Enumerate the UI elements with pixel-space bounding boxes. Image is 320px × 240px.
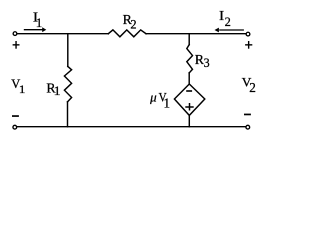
resistor R1 <box>64 66 71 102</box>
plus sign port 1 <box>13 41 20 49</box>
wire top-right segment <box>146 33 246 35</box>
terminal port 2 bottom <box>246 125 250 129</box>
minus sign port 1 <box>12 115 19 117</box>
terminal port 2 top <box>246 32 250 36</box>
dependent source U1 diamond <box>174 84 204 115</box>
wire R1 bottom stub <box>67 102 69 127</box>
current arrow I2 <box>215 28 244 33</box>
svg-text:2: 2 <box>225 14 231 29</box>
label I1 <box>33 9 42 30</box>
plus sign port 2 <box>245 41 252 49</box>
wire R3 top stub <box>188 34 190 45</box>
wire top-left segment <box>18 33 109 35</box>
resistor R3 <box>187 45 193 73</box>
label R3 <box>195 52 210 70</box>
terminal port 1 top <box>13 32 17 36</box>
minus sign port 2 <box>244 113 251 115</box>
svg-text:1: 1 <box>54 84 61 98</box>
wire stub into source apex <box>188 73 190 84</box>
label I2 <box>219 8 231 29</box>
svg-text:μ: μ <box>149 90 157 105</box>
plus sign inside source <box>185 103 193 111</box>
wire source bottom stub <box>188 115 190 126</box>
svg-text:3: 3 <box>204 56 210 70</box>
wire bottom segment <box>18 126 247 128</box>
svg-text:2: 2 <box>130 17 136 31</box>
wire R1 top stub <box>67 34 69 67</box>
svg-text:1: 1 <box>19 84 26 96</box>
svg-text:2: 2 <box>249 80 256 95</box>
label V1 <box>11 77 25 96</box>
minus sign inside source <box>186 90 192 92</box>
resistor R2 <box>108 30 146 37</box>
current arrow I1 <box>24 27 47 32</box>
label V2 <box>242 76 256 95</box>
svg-text:1: 1 <box>36 15 43 30</box>
label R2 <box>123 12 137 31</box>
label R1 <box>46 80 60 98</box>
svg-text:1: 1 <box>164 97 171 112</box>
label uV1 (controlled source gain) <box>149 90 170 112</box>
terminal port 1 bottom <box>13 125 17 129</box>
